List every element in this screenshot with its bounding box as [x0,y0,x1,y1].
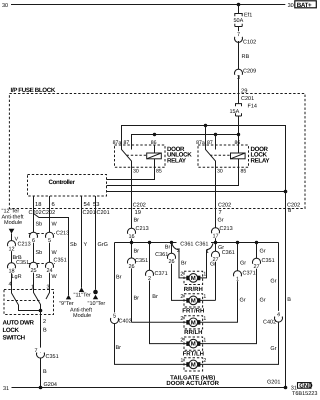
svg-text:1: 1 [203,337,206,343]
svg-text:C351: C351 [46,354,59,360]
svg-text:1: 1 [203,272,206,278]
svg-text:Module: Module [4,220,22,226]
svg-text:1: 1 [203,294,206,300]
svg-text:8: 8 [288,207,291,214]
svg-text:Gr: Gr [240,261,246,267]
svg-text:SWITCH: SWITCH [3,334,26,341]
svg-text:19: 19 [135,209,141,216]
svg-text:I/P FUSE BLOCK: I/P FUSE BLOCK [11,87,56,94]
svg-text:6: 6 [52,201,55,208]
svg-text:Gr: Gr [218,217,224,223]
svg-text:B: B [287,297,291,303]
svg-text:C361: C361 [222,250,235,256]
svg-text:AUTO DWR: AUTO DWR [3,319,35,326]
svg-text:Ef1: Ef1 [244,13,252,19]
svg-text:50A: 50A [234,18,244,24]
svg-text:27: 27 [253,264,259,270]
svg-text:"11"Ter: "11"Ter [74,292,91,298]
svg-text:W: W [52,250,58,256]
svg-text:30: 30 [133,169,139,175]
svg-text:85: 85 [156,169,162,175]
svg-text:RR/LH: RR/LH [184,329,202,336]
svg-text:RB: RB [242,54,250,60]
svg-text:B: B [43,369,47,375]
svg-text:C213: C213 [220,226,233,232]
svg-text:C202: C202 [42,210,55,216]
svg-text:Gr: Gr [240,298,246,304]
svg-text:5: 5 [113,313,116,319]
svg-text:86: 86 [235,140,241,146]
svg-text:2: 2 [180,316,183,322]
svg-text:M: M [191,341,196,348]
svg-text:C402: C402 [263,320,276,326]
svg-text:LgR: LgR [12,274,22,280]
svg-text:2: 2 [180,272,183,278]
svg-text:31: 31 [3,386,9,392]
svg-text:C102: C102 [243,39,256,45]
svg-text:C213: C213 [18,242,31,248]
svg-text:C209: C209 [243,69,256,75]
svg-text:30: 30 [2,3,8,9]
svg-text:87a: 87a [196,140,205,146]
svg-text:C201: C201 [83,210,96,216]
svg-text:G204: G204 [44,382,57,388]
svg-text:85: 85 [241,169,247,175]
svg-text:G201: G201 [267,380,280,386]
svg-text:DOOR ACTUATOR: DOOR ACTUATOR [166,380,219,387]
svg-text:5: 5 [48,238,51,244]
svg-text:7: 7 [237,32,240,38]
svg-text:Br: Br [152,294,158,300]
svg-text:C351: C351 [54,258,67,264]
svg-text:GND: GND [299,382,313,389]
svg-text:1: 1 [236,277,239,283]
svg-text:Gr: Gr [270,279,276,285]
svg-text:FRT/RH: FRT/RH [182,307,204,314]
svg-text:16: 16 [128,234,134,240]
svg-text:Gr: Gr [260,298,266,304]
svg-text:C371: C371 [155,271,168,277]
svg-text:RELAY: RELAY [251,157,271,164]
svg-text:26: 26 [128,264,134,270]
svg-text:Module: Module [73,313,91,319]
svg-text:M: M [191,297,196,304]
svg-text:Sb: Sb [36,274,43,280]
svg-text:87: 87 [124,140,130,146]
svg-text:87: 87 [207,140,213,146]
svg-text:W: W [52,222,58,228]
svg-text:RR/RH: RR/RH [184,286,203,293]
svg-text:Gr: Gr [270,346,276,352]
svg-text:2: 2 [203,358,206,364]
svg-text:7: 7 [219,210,222,216]
svg-text:2: 2 [180,337,183,343]
svg-text:C402: C402 [119,318,132,324]
svg-text:GrG: GrG [98,242,108,248]
svg-text:4: 4 [9,282,12,288]
svg-text:2: 2 [43,319,46,325]
svg-text:C351: C351 [262,258,275,264]
svg-text:53: 53 [93,201,99,208]
svg-text:Br: Br [134,248,140,254]
svg-text:BAT+: BAT+ [297,2,312,9]
svg-text:C351: C351 [16,260,29,266]
svg-text:RELAY: RELAY [167,157,187,164]
svg-text:Br: Br [116,345,122,351]
svg-text:Br: Br [116,274,122,280]
svg-text:Br: Br [134,296,140,302]
svg-text:1: 1 [180,358,183,364]
svg-text:Y: Y [84,242,88,248]
svg-text:C202: C202 [218,202,231,208]
svg-text:6: 6 [32,238,35,244]
svg-text:4: 4 [277,312,280,318]
svg-text:C213: C213 [56,231,69,237]
svg-text:W: W [52,274,58,280]
svg-text:F14: F14 [248,104,257,110]
svg-text:C361: C361 [155,252,168,258]
svg-text:87a: 87a [113,140,122,146]
svg-text:17: 17 [212,234,218,240]
svg-text:C361: C361 [195,241,208,247]
svg-text:B: B [43,328,47,334]
svg-text:18: 18 [35,201,41,208]
svg-text:26: 26 [168,259,174,265]
svg-text:C202: C202 [133,202,146,208]
svg-text:C201: C201 [97,210,110,216]
svg-text:C361: C361 [180,241,193,247]
svg-text:Gr: Gr [260,249,266,255]
svg-text:LOCK: LOCK [3,327,20,334]
svg-text:M: M [191,275,196,282]
svg-text:C213: C213 [136,226,149,232]
svg-text:86: 86 [151,140,157,146]
svg-text:2: 2 [180,294,183,300]
svg-text:30: 30 [288,3,294,9]
svg-text:30: 30 [217,169,223,175]
svg-text:C371: C371 [243,271,256,277]
svg-text:54: 54 [84,202,91,208]
svg-text:FRT/LH: FRT/LH [183,351,204,358]
svg-text:Sb: Sb [36,222,43,228]
svg-text:M: M [191,361,196,368]
svg-text:C201: C201 [241,96,254,102]
svg-text:C351: C351 [135,258,148,264]
svg-text:1: 1 [203,316,206,322]
svg-text:Br: Br [134,217,140,223]
svg-text:15A: 15A [230,109,240,115]
svg-text:2: 2 [148,276,151,282]
svg-text:M: M [191,319,196,326]
svg-text:12: 12 [8,247,14,253]
svg-text:Br: Br [181,261,187,267]
svg-text:"9"Ter: "9"Ter [59,301,74,307]
svg-text:Controller: Controller [49,179,76,186]
svg-text:27: 27 [212,257,218,263]
svg-text:T6B15223: T6B15223 [292,391,317,397]
svg-text:Sb: Sb [36,250,43,256]
svg-text:"10"Ter: "10"Ter [88,301,106,307]
svg-text:Sb: Sb [70,242,77,248]
svg-text:Br: Br [165,244,171,250]
